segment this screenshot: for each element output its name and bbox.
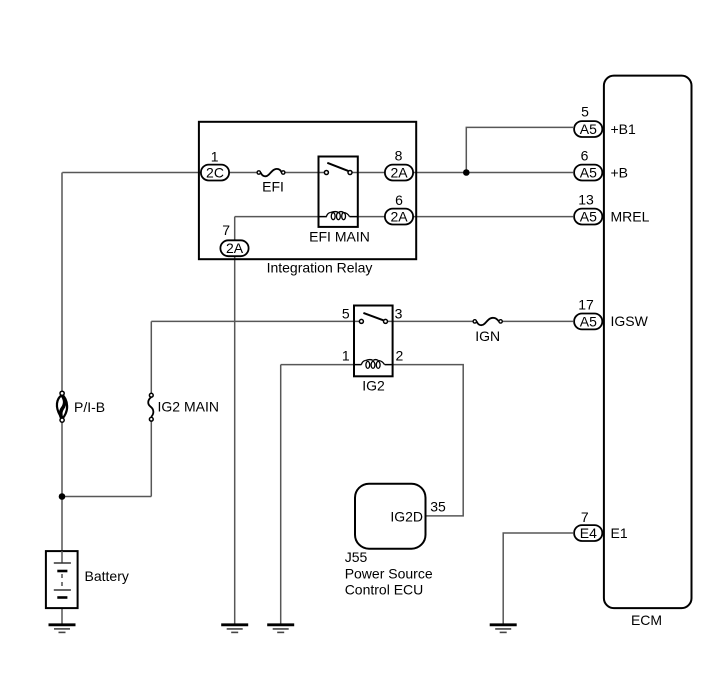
wire junction horizontal y=496.5 [62,496,151,498]
svg-text:A5: A5 [580,165,597,181]
wire P/I-B vertical x=62 [61,173,63,564]
fuse EFI [261,169,282,176]
ECU J55 box [355,484,426,549]
svg-text:7: 7 [222,222,230,238]
svg-text:ECM: ECM [631,612,662,628]
connector 2A pin7 [220,240,248,256]
wire E1 to ground [503,533,573,625]
ground relay pin7 [221,625,248,633]
ECM box [604,76,692,609]
svg-text:E4: E4 [580,525,597,541]
svg-text:6: 6 [581,148,589,164]
svg-text:1: 1 [342,347,350,363]
wire IG2-MAIN vertical x=151.3 [150,321,152,496]
svg-text:35: 35 [430,499,446,515]
svg-text:E1: E1 [611,525,628,541]
ground IG2 pin1 [267,625,294,633]
svg-text:1: 1 [211,148,219,164]
switch EFI MAIN arm [327,163,348,171]
wire IG2 coil line y=364.6 [281,365,464,516]
fuse IGN [477,318,499,325]
svg-text:2A: 2A [390,165,408,181]
svg-text:A5: A5 [580,121,597,137]
battery Battery [46,551,78,608]
connector 2C pin1 [201,165,229,181]
switch IG2 contacts [359,319,363,323]
svg-text:IG2D: IG2D [390,508,423,524]
svg-text:A5: A5 [580,313,597,329]
svg-text:2A: 2A [390,209,408,225]
svg-text:Control ECU: Control ECU [345,581,424,597]
svg-text:3: 3 [395,306,403,322]
svg-text:2A: 2A [226,240,244,256]
fuse IG2 MAIN [148,397,153,417]
connector A5 IGSW [574,314,602,330]
wire MREL / relay coil line y=216.6 [235,216,573,218]
relay box IG2 [354,306,393,377]
wire main +B line y=172.5 [62,172,573,174]
svg-text:EFI MAIN: EFI MAIN [309,228,370,244]
svg-text:Battery: Battery [85,568,129,584]
node junction on +B line [463,169,470,176]
svg-text:EFI: EFI [262,178,284,194]
switch IG2 arm [363,313,383,320]
svg-text:17: 17 [578,297,594,313]
svg-text:IG2: IG2 [362,378,385,394]
svg-text:J55: J55 [345,549,368,565]
svg-text:IGN: IGN [475,328,500,344]
svg-text:Power Source: Power Source [345,565,433,581]
svg-text:+B: +B [611,165,629,181]
wire battery bottom to ground [61,598,63,625]
wire relay pin7 vertical to ground [234,217,236,625]
connector A5 +B1 [574,121,602,137]
wire +B1 branch [466,127,573,172]
svg-text:P/I-B: P/I-B [74,399,105,415]
battery cells [61,551,63,563]
relay EFI MAIN inner box [319,157,358,227]
coil IG2 [355,360,392,369]
connector 2A pin6 [385,209,413,225]
svg-text:+B1: +B1 [611,121,637,137]
fuse P/I-B fusible link [57,395,67,419]
connector A5 +B [574,165,602,181]
svg-text:8: 8 [395,148,403,164]
switch EFI MAIN contacts [324,171,328,175]
ground E1 [490,625,517,633]
svg-text:5: 5 [342,306,350,322]
svg-text:IG2 MAIN: IG2 MAIN [158,399,219,415]
svg-text:A5: A5 [580,209,597,225]
svg-text:7: 7 [581,509,589,525]
connector A5 MREL [574,209,602,225]
svg-text:13: 13 [578,192,594,208]
connector E4 E1 [574,525,602,541]
svg-text:Integration Relay: Integration Relay [267,259,373,275]
ground battery [49,625,76,633]
coil EFI MAIN [320,212,358,220]
svg-text:6: 6 [395,192,403,208]
node junction battery [59,493,66,500]
svg-text:5: 5 [581,104,589,120]
relay box Integration Relay [199,122,416,259]
connector 2A pin8 [385,165,413,181]
svg-text:2: 2 [396,347,404,363]
wire IGSW line y=321.4 [151,320,573,322]
svg-text:IGSW: IGSW [611,313,649,329]
svg-text:2C: 2C [206,165,224,181]
wire IG2 pin1 vertical to ground [280,365,282,625]
svg-text:MREL: MREL [611,209,650,225]
